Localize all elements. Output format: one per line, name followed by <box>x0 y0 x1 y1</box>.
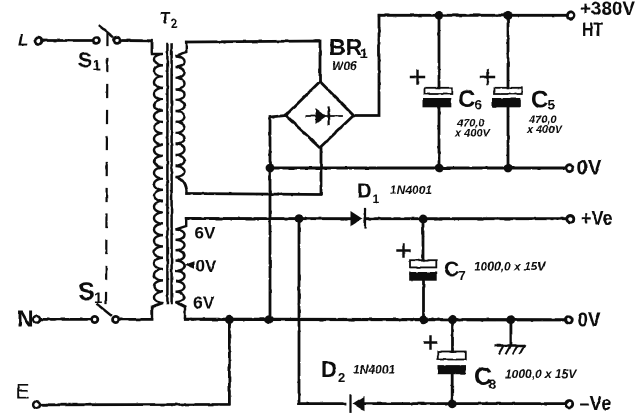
svg-text:7: 7 <box>459 268 466 283</box>
transformer T2 core <box>166 44 169 303</box>
transformer T2 secondary HT winding <box>176 42 187 194</box>
junction C8 bottom <box>448 399 457 408</box>
svg-text:C: C <box>458 86 475 113</box>
svg-text:D: D <box>321 357 337 382</box>
diode D2 <box>351 395 365 411</box>
C6 polarity + <box>411 71 424 84</box>
svg-text:0V: 0V <box>577 156 603 180</box>
capacitor C7 <box>409 219 437 320</box>
wire N to S1b <box>41 318 91 321</box>
svg-text:1: 1 <box>93 57 101 73</box>
switch S1 (bottom pole) <box>92 305 119 323</box>
junction C6 bottom <box>435 164 444 173</box>
junction C5 bottom <box>504 164 513 173</box>
svg-text:5: 5 <box>548 98 556 113</box>
switch mechanical link (dashed) <box>106 33 108 303</box>
terminal N <box>33 316 40 323</box>
terminal 0V LV <box>565 316 572 323</box>
svg-text:T: T <box>160 9 171 28</box>
bridge rectifier BR1 <box>286 82 354 148</box>
svg-text:C: C <box>531 87 548 114</box>
svg-text:1: 1 <box>360 45 368 61</box>
junction ground <box>507 315 516 324</box>
svg-text:6V: 6V <box>193 293 215 313</box>
terminal +380V HT <box>567 12 574 19</box>
wire 0V HT rail <box>270 167 566 170</box>
wire BR1 + output to +380V rail <box>354 15 380 115</box>
capacitor C6 <box>423 15 453 168</box>
wire S1a to T2 primary top <box>121 41 153 53</box>
svg-text:6V: 6V <box>195 224 216 243</box>
svg-text:L: L <box>18 31 28 50</box>
wire L to S1a <box>42 39 93 42</box>
junction C6 top <box>435 11 444 20</box>
junction -Ve feed on +Ve rail <box>295 214 304 223</box>
junction E earth <box>225 315 234 324</box>
svg-text:E: E <box>16 381 30 404</box>
svg-text:2: 2 <box>338 370 345 385</box>
svg-text:0V: 0V <box>578 308 601 331</box>
junction BR1- to 0V HT rail <box>266 164 275 173</box>
svg-text:x 400V: x 400V <box>526 124 564 136</box>
terminal +Ve <box>567 215 574 222</box>
svg-text:C: C <box>444 258 459 281</box>
svg-text:2: 2 <box>171 16 178 31</box>
C7 polarity + <box>398 245 410 257</box>
switch S1 (top pole) <box>93 26 120 43</box>
diode D1 <box>351 209 366 228</box>
svg-text:1: 1 <box>373 192 380 206</box>
wire S1b to T2 primary bottom <box>120 318 153 321</box>
wire T2 secondary HT bottom to BR1 AC bottom <box>187 148 321 195</box>
svg-text:S: S <box>78 49 92 72</box>
wire BR1 - output down to LV rail <box>270 116 286 320</box>
svg-text:0V: 0V <box>196 256 217 275</box>
svg-text:x 400V: x 400V <box>454 128 492 140</box>
svg-text:D: D <box>357 181 371 203</box>
svg-text:8: 8 <box>489 376 497 392</box>
svg-text:6: 6 <box>475 97 483 112</box>
wire +380V HT rail <box>379 14 566 17</box>
svg-text:N: N <box>17 306 34 332</box>
wire T2 secondary top to BR1 AC top <box>186 41 320 82</box>
wire +Ve rail (6V top tap through D1 to terminal) <box>186 217 351 220</box>
svg-text:W06: W06 <box>332 59 357 73</box>
junction C7 top <box>419 215 428 224</box>
wire -Ve feed (vertical) <box>299 219 345 404</box>
svg-text:S: S <box>78 278 95 306</box>
junction C7 bottom <box>419 315 428 324</box>
svg-text:BR: BR <box>329 34 363 60</box>
wire E to 0V LV rail <box>41 320 230 405</box>
svg-text:+Ve: +Ve <box>581 208 613 230</box>
terminal -Ve <box>566 401 573 408</box>
svg-text:–Ve: –Ve <box>580 393 612 413</box>
svg-text:1000,0 x 15V: 1000,0 x 15V <box>474 260 546 274</box>
svg-text:1000,0 x 15V: 1000,0 x 15V <box>505 367 577 381</box>
C5 polarity + <box>481 71 494 84</box>
transformer T2 secondary LV winding <box>176 219 187 319</box>
svg-text:1N4001: 1N4001 <box>390 183 432 197</box>
svg-text:+380V: +380V <box>580 0 635 20</box>
terminal 0V HT <box>566 165 573 172</box>
terminal L <box>35 37 42 44</box>
transformer T2 primary winding <box>152 50 163 319</box>
svg-text:1N4001: 1N4001 <box>353 363 395 377</box>
junction C5 top <box>504 11 513 20</box>
terminal E <box>33 401 40 408</box>
wire 0V LV rail <box>185 318 564 322</box>
svg-text:1: 1 <box>94 290 102 307</box>
wire -Ve rail through D2 to terminal <box>365 402 565 405</box>
svg-text:HT: HT <box>582 20 603 41</box>
transformer 0V centre-tap arrow <box>184 261 195 268</box>
junction C8 top <box>448 315 457 324</box>
C8 polarity + <box>425 337 437 349</box>
ground (chassis) symbol <box>496 320 525 354</box>
junction HT 0V link <box>265 315 274 324</box>
capacitor C8 <box>438 320 467 404</box>
capacitor C5 <box>492 15 522 168</box>
